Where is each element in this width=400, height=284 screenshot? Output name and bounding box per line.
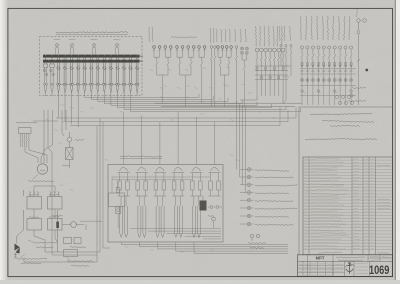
station internal bus <box>130 229 221 239</box>
feeder fuse-switch column 11 <box>122 62 126 95</box>
station outgoing wires <box>121 242 288 253</box>
feeder fuse-switch column 10 <box>115 62 119 95</box>
feeder fuse-switch column 12 <box>129 62 133 95</box>
lighting feeder group 3 <box>198 28 216 107</box>
feeder fuse-switch column 13 <box>135 62 139 95</box>
relay box K4 <box>48 217 63 230</box>
panel meter M1 <box>54 39 61 54</box>
terminal strip (dark) <box>200 196 207 211</box>
feeder fuse-switch column 5 <box>83 62 87 95</box>
outdoor lighting label <box>171 37 197 38</box>
output feed risers <box>237 101 246 193</box>
relay box K2 <box>48 192 63 210</box>
title block <box>298 255 393 277</box>
navigation light output 2 <box>240 175 293 179</box>
panel meter M4 <box>114 39 121 54</box>
charging switch with meter <box>52 210 102 252</box>
switch module 3 <box>154 168 166 238</box>
signal station enclosure <box>108 165 223 243</box>
navigation light output 6 <box>240 206 297 210</box>
switch module 4 <box>172 168 184 238</box>
feeder fuse-switch column 6 <box>89 62 93 95</box>
distribution column group (right) <box>300 16 356 105</box>
navigation light output 8 <box>240 222 293 226</box>
relay box K1 <box>27 192 42 210</box>
navigation light output 5 <box>240 198 293 202</box>
distribution sub-group left <box>279 26 292 104</box>
note text <box>305 113 377 140</box>
lower output group <box>248 234 266 248</box>
switch module 2 <box>136 168 148 238</box>
riser wires to upper band <box>97 118 110 262</box>
signal station title <box>120 156 162 159</box>
feed wires into station <box>124 112 215 165</box>
station upper internal wires <box>112 177 210 193</box>
bus tap connections <box>46 57 139 60</box>
station resistor box <box>109 181 125 228</box>
navigation light output 1 <box>240 168 289 172</box>
charging panel small boxes <box>64 238 94 267</box>
feeder group 6 with lamp cluster <box>235 29 249 107</box>
wire harness from switchboard <box>59 94 301 127</box>
feeder fuse-switch column 8 <box>102 62 106 95</box>
notes area divider <box>299 107 393 255</box>
left section link wires <box>33 110 66 136</box>
navigation light output 4 <box>240 191 289 195</box>
shunt meter block 1 <box>43 62 48 83</box>
bus bar P1 (+) <box>43 55 143 58</box>
switchboard title label <box>56 31 128 34</box>
panel meter M3 <box>91 39 98 54</box>
wires to generator <box>25 110 53 252</box>
panel meter M2 <box>69 39 76 54</box>
navigation light output 3 <box>240 183 297 187</box>
wire code labels <box>46 68 338 252</box>
lower right lamp cluster <box>336 96 354 105</box>
battery label <box>28 240 57 248</box>
feeder group 5 <box>216 29 232 107</box>
shunt meter block 2 <box>50 62 55 83</box>
switch module 6 <box>209 168 221 196</box>
auxiliary lamp column far right <box>348 8 368 105</box>
relay box K3 <box>27 217 42 230</box>
feeder fuse-switch column 4 <box>76 62 80 95</box>
signal lamp group row <box>240 26 288 103</box>
generator G1 <box>28 164 54 182</box>
ventilation panel box <box>19 128 32 148</box>
bus bar P2 (-) <box>43 60 143 63</box>
switch module 5 <box>190 168 202 238</box>
outgoing chain row dashes <box>60 83 135 85</box>
lighting feeder group 1 <box>149 27 172 103</box>
bottom collector wires <box>24 118 100 262</box>
feeder fuse-switch column 1 <box>56 62 60 95</box>
accumulator battery label 2 <box>17 254 47 264</box>
regulator resistor box <box>62 132 84 168</box>
switchboard outgoing row marks <box>43 83 54 96</box>
feeder fuse-switch column 2 <box>63 62 67 95</box>
switch module 1 <box>118 168 130 238</box>
collector bus wires <box>155 103 302 106</box>
battery main switch (filled) <box>14 236 20 258</box>
feeder fuse-switch column 3 <box>70 62 74 95</box>
feeder fuse-switch column 7 <box>96 62 100 95</box>
long distribution wires <box>56 107 296 126</box>
navigation light output 7 <box>240 214 289 218</box>
feeder fuse-switch column 9 <box>109 62 113 95</box>
ventilation panel label <box>16 122 37 123</box>
lighting feeder group 2 <box>176 46 195 107</box>
main switchboard enclosure (dashed) <box>40 37 143 96</box>
parts list table <box>303 157 392 255</box>
station aux contacts <box>208 206 222 228</box>
bottom-left wiring <box>17 186 58 250</box>
